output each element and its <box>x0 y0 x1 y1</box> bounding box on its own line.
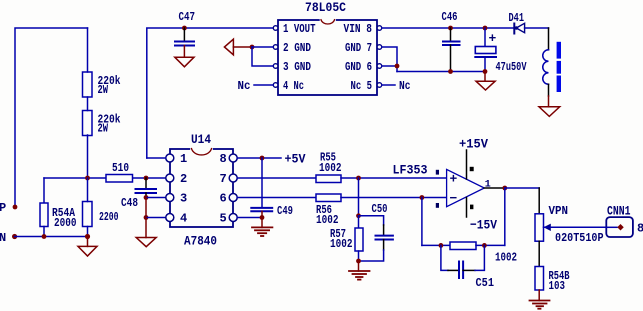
ground under 2200 <box>87 237 89 247</box>
svg-text:78L05C: 78L05C <box>305 0 346 15</box>
pin circles U14 right <box>229 154 237 162</box>
resistor R56 <box>316 194 341 202</box>
wire 220k chain bottom <box>87 135 89 178</box>
svg-text:1 VOUT: 1 VOUT <box>283 22 316 36</box>
svg-text:2 GND: 2 GND <box>283 41 311 55</box>
inductor winding <box>548 28 550 50</box>
wiper arrow <box>544 224 551 231</box>
capacitor 47u50V electrolytic <box>483 26 488 31</box>
svg-text:+5V: +5V <box>285 152 306 167</box>
svg-text:1: 1 <box>180 152 187 166</box>
svg-text:C47: C47 <box>179 10 196 24</box>
ground under C48 <box>145 218 147 238</box>
wire U14 pin5 to C49 <box>237 217 262 219</box>
svg-text:2200: 2200 <box>99 210 119 224</box>
node junction 220k/510 row <box>85 176 90 181</box>
wire P loop top-left <box>15 28 88 207</box>
svg-text:1002: 1002 <box>495 251 517 265</box>
wire pin7 to rail <box>382 47 397 72</box>
svg-text:GND 7: GND 7 <box>345 41 372 55</box>
wire U14 pin7 to R55 <box>237 177 316 179</box>
pin circles 78L05C right <box>377 26 382 31</box>
resistor R54A 2000 <box>43 178 45 203</box>
svg-text:8: 8 <box>220 152 227 166</box>
svg-text:P: P <box>0 201 6 215</box>
resistor 220k lower <box>83 111 93 136</box>
wire op-amp output <box>484 187 505 189</box>
wire U14 pin8 to +5V <box>237 157 281 159</box>
svg-text:Nc: Nc <box>238 79 251 93</box>
svg-text:020T510P: 020T510P <box>555 231 604 245</box>
capacitor C51 <box>441 245 448 270</box>
svg-text:Nc: Nc <box>399 79 411 93</box>
svg-text:+15V: +15V <box>459 137 488 152</box>
svg-text:3 GND: 3 GND <box>283 60 311 74</box>
op-amp pin number 3 <box>436 170 439 175</box>
power arrow at 78L05C GND pins <box>224 39 233 55</box>
wire GND rail under caps <box>397 71 485 73</box>
capacitor C47 <box>182 26 187 31</box>
svg-text:Nc 5: Nc 5 <box>351 79 373 93</box>
op-amp pin number 2 <box>436 203 439 208</box>
svg-text:C50: C50 <box>372 202 388 216</box>
-15V supply stub <box>466 198 468 218</box>
svg-text:N: N <box>0 231 6 245</box>
svg-text:VIN 8: VIN 8 <box>344 22 373 36</box>
ground under 47u <box>484 72 486 82</box>
wire R56 to op-amp - <box>341 197 447 199</box>
svg-text:1002: 1002 <box>316 213 339 227</box>
svg-text:5: 5 <box>220 212 227 226</box>
Nc stub right pin5 <box>382 84 395 86</box>
svg-text:+: + <box>489 31 497 46</box>
svg-text:C51: C51 <box>476 276 495 290</box>
wire row to U14 pin2 <box>44 177 166 179</box>
wire N rail <box>15 236 88 238</box>
svg-text:+: + <box>450 172 458 187</box>
wire arrow to pin2 <box>252 46 273 48</box>
wire VIN rail <box>382 27 514 29</box>
ground under inductor <box>548 96 550 107</box>
wire between 220k resistors <box>87 97 89 111</box>
node junction R54A/N rail <box>42 234 47 239</box>
wire 220k chain top <box>87 28 89 72</box>
svg-text:VPN: VPN <box>549 204 569 218</box>
potentiometer VPN <box>538 188 540 214</box>
pin circles 78L05C left <box>273 26 278 31</box>
svg-text:−15V: −15V <box>470 218 497 233</box>
inductor core bars <box>557 42 561 59</box>
svg-text:U14: U14 <box>191 132 211 147</box>
wire C48 to pin3 <box>145 193 147 198</box>
svg-text:510: 510 <box>112 161 129 175</box>
ground under C49 <box>261 218 263 228</box>
notch 78L05C <box>321 19 335 22</box>
capacitor C50 <box>359 216 384 225</box>
resistor R57 <box>358 216 360 228</box>
IC 78L05C box <box>278 20 377 95</box>
node junction 510/C48 <box>144 176 149 181</box>
capacitor C48 <box>145 178 147 188</box>
svg-text:C49: C49 <box>277 204 293 218</box>
svg-text:4: 4 <box>180 212 187 226</box>
wire U14 pin6 to R56 <box>237 197 316 199</box>
svg-text:C48: C48 <box>121 196 138 210</box>
IC U14 A7840 box <box>170 149 233 227</box>
ground under R54B <box>538 290 540 301</box>
capacitor C49 <box>261 158 263 208</box>
svg-text:GND 6: GND 6 <box>345 60 372 74</box>
svg-text:8: 8 <box>637 222 643 236</box>
svg-text:6: 6 <box>220 192 227 206</box>
wire VOUT to U14 pin1 <box>147 28 273 158</box>
feedback resistor 1002 <box>421 198 423 246</box>
svg-text:−: − <box>450 191 458 206</box>
capacitor C46 <box>448 26 453 31</box>
svg-text:2W: 2W <box>98 83 109 97</box>
wire R55 to op-amp + <box>341 177 447 179</box>
wire R55 node down to R57/C50 <box>358 178 360 216</box>
wire pin6 to rail <box>382 65 397 67</box>
resistor 2200 <box>83 202 93 227</box>
svg-text:2W: 2W <box>98 122 109 136</box>
node junction 2200/N rail <box>85 234 90 239</box>
wire C48 to pin4 <box>145 198 147 218</box>
notch U14 <box>192 148 212 151</box>
node N <box>12 234 17 239</box>
svg-text:47u50V: 47u50V <box>496 60 528 74</box>
svg-text:1002: 1002 <box>319 161 342 175</box>
svg-text:103: 103 <box>549 279 566 293</box>
wire arrow to pin3 <box>252 47 273 66</box>
resistor R55 <box>316 175 341 183</box>
resistor R54B <box>538 241 540 266</box>
svg-text:LF353: LF353 <box>393 163 428 178</box>
resistor 510 <box>106 175 133 183</box>
svg-text:2000: 2000 <box>54 216 77 230</box>
ground under R57/C50 <box>358 261 360 271</box>
svg-text:D41: D41 <box>509 11 525 25</box>
ground under C47 <box>183 46 185 58</box>
svg-text:A7840: A7840 <box>184 234 217 249</box>
node P <box>13 205 18 210</box>
svg-text:1002: 1002 <box>330 237 353 251</box>
svg-text:C46: C46 <box>442 10 458 24</box>
svg-text:3: 3 <box>180 192 187 206</box>
svg-text:7: 7 <box>220 172 227 186</box>
resistor 220k upper <box>83 72 93 97</box>
svg-text:2: 2 <box>180 172 187 186</box>
svg-text:4 Nc: 4 Nc <box>283 79 304 93</box>
pin circles U14 left <box>166 154 174 162</box>
